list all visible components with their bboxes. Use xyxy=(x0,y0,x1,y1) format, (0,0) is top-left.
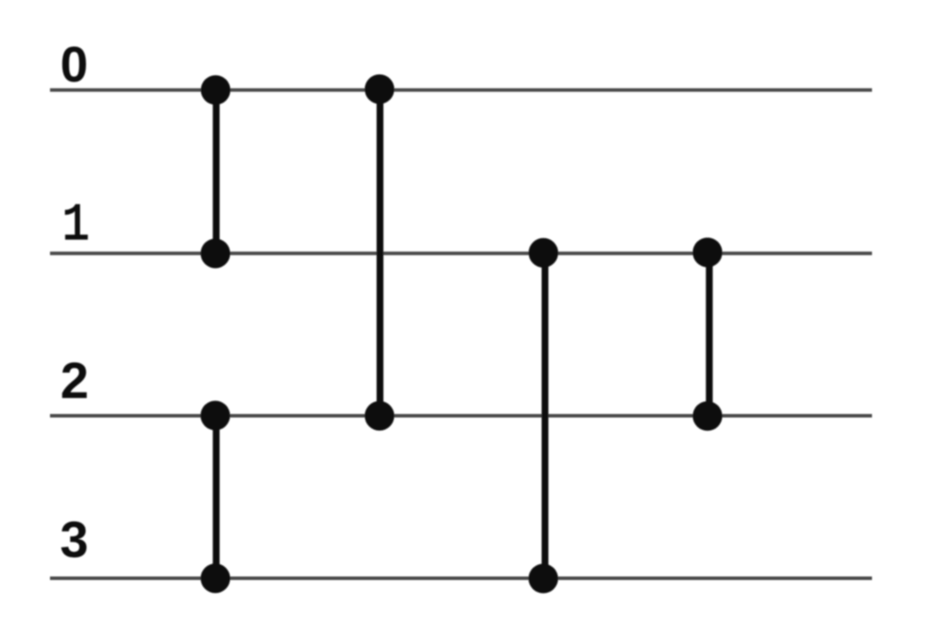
svg-text:1: 1 xyxy=(62,197,89,255)
svg-text:0: 0 xyxy=(60,37,88,93)
comparator 0-1 vertical xyxy=(213,90,220,253)
node dot wire1 x216 xyxy=(201,239,231,269)
node dot wire2 x707 xyxy=(693,401,723,431)
node dot wire2 x379 xyxy=(365,401,395,431)
wire 3 xyxy=(50,577,872,581)
wire 1 xyxy=(50,252,872,256)
node dot wire1 x543 xyxy=(529,238,559,268)
node dot wire0 x379 xyxy=(365,74,395,104)
node dot wire3 x543 xyxy=(529,564,559,594)
node dot wire0 x216 xyxy=(201,75,231,105)
svg-text:3: 3 xyxy=(60,511,88,568)
comparator 0-2 vertical xyxy=(377,90,384,416)
wire 2 xyxy=(50,414,872,418)
comparator 1-2 vertical xyxy=(706,253,713,415)
comparator 2-3 vertical xyxy=(213,416,220,579)
node dot wire3 x215 xyxy=(201,564,231,594)
node dot wire2 x215 xyxy=(201,401,231,431)
svg-text:2: 2 xyxy=(60,352,88,409)
comparator 1-3 vertical xyxy=(542,253,549,578)
wire 0 xyxy=(50,88,872,92)
node dot wire1 x707 xyxy=(693,238,723,268)
